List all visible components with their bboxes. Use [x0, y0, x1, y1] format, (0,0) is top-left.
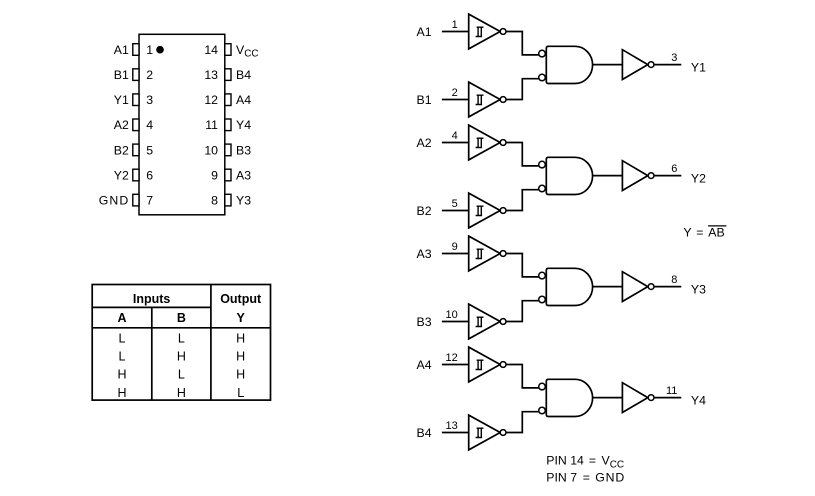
truth table frame — [92, 285, 270, 401]
pin 2 label B1 — [114, 68, 129, 82]
svg-text:Output: Output — [220, 292, 262, 306]
inversion bubble gate G3 top input — [539, 272, 546, 279]
pin 9 label A3 — [236, 168, 251, 182]
IC package U1 DIP-14 body — [139, 34, 225, 215]
truth table row 4: H H L — [117, 386, 244, 400]
input label A1 — [417, 25, 432, 39]
svg-text:PIN 14: PIN 14 — [546, 454, 584, 468]
svg-text:9: 9 — [211, 168, 218, 182]
svg-text:GND: GND — [99, 194, 129, 208]
pin 6 number (Y2) — [671, 163, 677, 175]
svg-text:Y: Y — [683, 226, 691, 240]
wire input B4 — [442, 432, 469, 434]
truth table header/body divider — [92, 327, 270, 329]
inversion bubble at U3A output — [500, 251, 506, 257]
inversion bubble gate G1 bottom input — [539, 74, 546, 81]
svg-text:3: 3 — [146, 93, 153, 107]
svg-text:6: 6 — [146, 168, 153, 182]
svg-text:Inputs: Inputs — [133, 292, 171, 306]
svg-text:B4: B4 — [236, 68, 251, 82]
svg-text:Y2: Y2 — [114, 168, 129, 182]
pin 4 label A2 — [114, 118, 129, 132]
svg-text:GND: GND — [595, 470, 625, 484]
pin 4 lead (A2) — [133, 119, 139, 131]
svg-text:6: 6 — [671, 163, 677, 175]
svg-text:A4: A4 — [236, 93, 251, 107]
pin 13 label B4 — [236, 68, 251, 82]
pin 1 lead (A1) — [133, 44, 139, 56]
svg-text:3: 3 — [671, 52, 677, 64]
pin 3 number (Y1) — [671, 52, 677, 64]
svg-text:H: H — [117, 368, 126, 382]
svg-text:Y3: Y3 — [691, 283, 706, 297]
note PIN 7 = GND — [546, 470, 625, 484]
svg-text:5: 5 — [452, 198, 458, 210]
schmitt-trigger inverter U2B — [469, 193, 501, 228]
pin 1 number — [146, 43, 153, 57]
truth table row 2: L H H — [119, 350, 246, 364]
pin 7 number — [146, 194, 153, 208]
svg-text:Y1: Y1 — [691, 61, 706, 75]
svg-text:H: H — [177, 386, 186, 400]
pin 13 lead (B4) — [225, 69, 231, 81]
svg-text:12: 12 — [446, 352, 458, 364]
svg-text:A2: A2 — [114, 118, 129, 132]
pin 7 label GND — [99, 194, 129, 208]
wire B4 inverter output to gate G4 bottom input — [506, 412, 540, 433]
svg-text:B4: B4 — [417, 426, 432, 440]
wire gate G3 output to inverter U3C — [593, 286, 623, 288]
svg-text:B1: B1 — [417, 93, 432, 107]
svg-text:B2: B2 — [417, 204, 432, 218]
pin 9 number (A3) — [452, 241, 458, 253]
wire output Y4 — [654, 397, 681, 399]
inversion bubble gate G1 top input — [539, 50, 546, 57]
svg-text:5: 5 — [146, 143, 153, 157]
inversion bubble at U1A output — [500, 29, 506, 35]
wire A2 inverter output to gate G2 top input — [506, 143, 540, 166]
inversion bubble at U1C output — [648, 62, 654, 68]
svg-text:AB: AB — [708, 226, 724, 240]
svg-text:H: H — [236, 331, 245, 345]
pin 4 number (A2) — [452, 130, 458, 142]
svg-text:A: A — [117, 311, 126, 325]
wire input A1 — [442, 31, 469, 33]
pin 10 number — [204, 143, 218, 157]
svg-text:13: 13 — [204, 68, 218, 82]
svg-text:B: B — [177, 311, 186, 325]
svg-text:A1: A1 — [114, 43, 129, 57]
pin 6 label Y2 — [114, 168, 129, 182]
pin 12 number — [204, 93, 218, 107]
pin 1 number (A1) — [452, 19, 458, 31]
wire input B2 — [442, 210, 469, 212]
svg-text:A2: A2 — [417, 136, 432, 150]
truth table column divider B|Y — [210, 285, 212, 401]
pin 3 label Y1 — [114, 93, 129, 107]
pin 14 label VCC — [236, 43, 259, 60]
pin 5 lead (B2) — [133, 144, 139, 156]
truth table header Inputs — [133, 292, 171, 306]
inversion bubble at U4B output — [500, 430, 506, 436]
pin 11 number (Y4) — [666, 385, 677, 397]
pin 6 lead (Y2) — [133, 169, 139, 181]
svg-text:8: 8 — [671, 274, 677, 286]
input label A4 — [417, 358, 432, 372]
svg-text:A3: A3 — [236, 168, 251, 182]
svg-text:2: 2 — [452, 87, 458, 99]
truth table header Y — [237, 311, 246, 325]
pin 12 label A4 — [236, 93, 251, 107]
input label B2 — [417, 204, 432, 218]
svg-text:10: 10 — [446, 309, 458, 321]
svg-text:11: 11 — [666, 385, 677, 397]
svg-text:7: 7 — [146, 194, 153, 208]
output label Y3 — [691, 283, 706, 297]
svg-text:A1: A1 — [417, 25, 432, 39]
truth table header Output — [220, 292, 262, 306]
svg-text:1: 1 — [146, 43, 153, 57]
pin 5 number — [146, 143, 153, 157]
schmitt-trigger inverter U4B — [469, 415, 501, 450]
svg-text:L: L — [237, 386, 244, 400]
svg-text:4: 4 — [146, 118, 153, 132]
svg-text:H: H — [236, 350, 245, 364]
svg-text:B2: B2 — [114, 143, 129, 157]
schmitt-trigger inverter U3A — [469, 236, 501, 271]
svg-text:Y2: Y2 — [691, 172, 706, 186]
inversion bubble at U3C output — [648, 284, 654, 290]
svg-text:A4: A4 — [417, 358, 432, 372]
AND gate G2 — [546, 157, 592, 194]
pin 5 number (B2) — [452, 198, 458, 210]
input label B4 — [417, 426, 432, 440]
AND gate G4 — [546, 379, 592, 416]
inversion bubble at U2B output — [500, 208, 506, 214]
pin 8 label Y3 — [236, 194, 251, 208]
svg-text:10: 10 — [204, 143, 218, 157]
pin 3 number — [146, 93, 153, 107]
svg-text:PIN 7: PIN 7 — [546, 470, 577, 484]
pin 14 lead (VCC) — [225, 44, 231, 56]
inverter U3C — [622, 272, 647, 302]
wire B2 inverter output to gate G2 bottom input — [506, 190, 540, 211]
svg-text:L: L — [119, 331, 126, 345]
truth table row 1: L L H — [119, 331, 246, 345]
truth table header A — [117, 311, 126, 325]
input label A3 — [417, 247, 432, 261]
schmitt-trigger inverter U3B — [469, 304, 501, 339]
wire input B3 — [442, 321, 469, 323]
schmitt-trigger inverter U2A — [469, 125, 501, 160]
svg-text:H: H — [177, 350, 186, 364]
pin 13 number (B4) — [446, 420, 458, 432]
wire input A4 — [442, 364, 469, 366]
truth table row 3: H L H — [117, 368, 245, 382]
wire gate G1 output to inverter U1C — [593, 64, 623, 66]
schmitt-trigger inverter U1B — [469, 82, 501, 117]
wire B3 inverter output to gate G3 bottom input — [506, 301, 540, 322]
pin 6 number — [146, 168, 153, 182]
pin 4 number — [146, 118, 153, 132]
truth table header divider (Inputs row) — [92, 306, 211, 308]
svg-text:Y4: Y4 — [691, 394, 706, 408]
pin 2 lead (B1) — [133, 69, 139, 81]
inversion bubble at U4C output — [648, 395, 654, 401]
svg-text:L: L — [178, 368, 185, 382]
output label Y2 — [691, 172, 706, 186]
svg-text:13: 13 — [446, 420, 458, 432]
inversion bubble at U2C output — [648, 173, 654, 179]
svg-text:Y: Y — [237, 311, 246, 325]
inversion bubble at U1B output — [500, 97, 506, 103]
inversion bubble at U3B output — [500, 319, 506, 325]
pin 11 label Y4 — [236, 118, 251, 132]
svg-text:=: = — [583, 470, 590, 484]
svg-text:A3: A3 — [417, 247, 432, 261]
pin 13 number — [204, 68, 218, 82]
wire input A3 — [442, 253, 469, 255]
pin 8 lead (Y3) — [225, 194, 231, 206]
svg-text:14: 14 — [204, 43, 218, 57]
svg-text:L: L — [178, 331, 185, 345]
input label B3 — [417, 315, 432, 329]
svg-text:Y1: Y1 — [114, 93, 129, 107]
pin 14 number — [204, 43, 218, 57]
pin 5 label B2 — [114, 143, 129, 157]
svg-text:9: 9 — [452, 241, 458, 253]
pin 7 lead (GND) — [133, 194, 139, 206]
AND gate G1 — [546, 46, 592, 83]
wire gate G4 output to inverter U4C — [593, 397, 623, 399]
schmitt-trigger inverter U4A — [469, 347, 501, 382]
output label Y1 — [691, 61, 706, 75]
svg-text:11: 11 — [205, 118, 218, 132]
svg-text:1: 1 — [452, 19, 458, 31]
inverter U2C — [622, 161, 647, 191]
wire A1 inverter output to gate G1 top input — [506, 32, 540, 55]
inverter U4C — [622, 383, 647, 413]
pin 9 lead (A3) — [225, 169, 231, 181]
svg-text:8: 8 — [211, 194, 218, 208]
inversion bubble gate G4 top input — [539, 383, 546, 390]
wire input B1 — [442, 99, 469, 101]
note PIN 14 = VCC — [546, 454, 624, 471]
schmitt-trigger inverter U1A — [469, 14, 501, 49]
inversion bubble gate G2 bottom input — [539, 185, 546, 192]
input label B1 — [417, 93, 432, 107]
inverter U1C — [622, 50, 647, 80]
output label Y4 — [691, 394, 706, 408]
svg-text:B3: B3 — [417, 315, 432, 329]
inversion bubble gate G2 top input — [539, 161, 546, 168]
svg-text:L: L — [119, 350, 126, 364]
wire output Y1 — [654, 64, 681, 66]
wire gate G2 output to inverter U2C — [593, 175, 623, 177]
pin 11 number — [205, 118, 218, 132]
wire output Y3 — [654, 286, 681, 288]
pin 8 number (Y3) — [671, 274, 677, 286]
pin 1 label A1 — [114, 43, 129, 57]
svg-text:4: 4 — [452, 130, 458, 142]
pin 11 lead (Y4) — [225, 119, 231, 131]
truth table header B — [177, 311, 186, 325]
input label A2 — [417, 136, 432, 150]
pin 2 number — [146, 68, 153, 82]
svg-text:=: = — [696, 226, 703, 240]
wire B1 inverter output to gate G1 bottom input — [506, 79, 540, 100]
equation Y = NOT(AB) — [683, 226, 726, 240]
wire output Y2 — [654, 175, 681, 177]
svg-text:Y3: Y3 — [236, 194, 251, 208]
svg-text:B3: B3 — [236, 143, 251, 157]
pin 12 number (A4) — [446, 352, 458, 364]
pin 9 number — [211, 168, 218, 182]
wire input A2 — [442, 142, 469, 144]
svg-text:=: = — [589, 454, 596, 468]
wire A4 inverter output to gate G4 top input — [506, 365, 540, 388]
pin 1 indicator dot — [156, 46, 164, 54]
svg-text:H: H — [236, 368, 245, 382]
inversion bubble gate G3 bottom input — [539, 296, 546, 303]
inversion bubble at U2A output — [500, 140, 506, 146]
pin 10 lead (B3) — [225, 144, 231, 156]
wire A3 inverter output to gate G3 top input — [506, 254, 540, 277]
truth table column divider A|B — [151, 307, 153, 400]
svg-text:Y4: Y4 — [236, 118, 251, 132]
AND gate G3 — [546, 268, 592, 305]
svg-text:B1: B1 — [114, 68, 129, 82]
inversion bubble gate G4 bottom input — [539, 407, 546, 414]
pin 3 lead (Y1) — [133, 94, 139, 106]
pin 2 number (B1) — [452, 87, 458, 99]
pin 10 label B3 — [236, 143, 251, 157]
pin 10 number (B3) — [446, 309, 458, 321]
pin 12 lead (A4) — [225, 94, 231, 106]
svg-text:H: H — [117, 386, 126, 400]
pin 8 number — [211, 194, 218, 208]
svg-text:2: 2 — [146, 68, 153, 82]
svg-text:12: 12 — [204, 93, 218, 107]
inversion bubble at U4A output — [500, 362, 506, 368]
